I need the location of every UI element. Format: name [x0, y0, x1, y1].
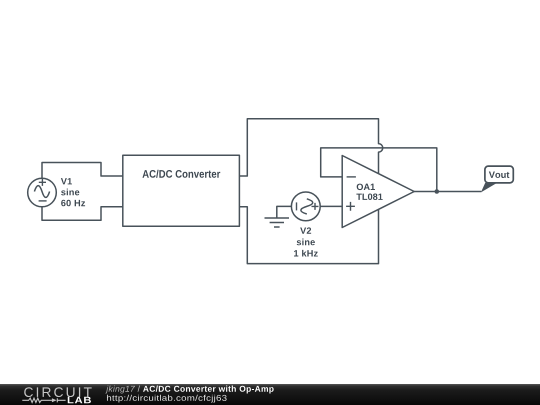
label V1 sine — [61, 189, 79, 196]
net flag Vout — [481, 166, 513, 192]
footer url — [107, 395, 227, 403]
footer bar — [0, 384, 540, 405]
label V2 sine — [297, 239, 315, 246]
footer title: author / name — [105, 386, 135, 394]
label V2 designator — [300, 227, 311, 233]
voltage source V2 — [291, 192, 320, 221]
ground — [265, 218, 290, 227]
wire V1 top terminal to converter top input — [42, 163, 123, 179]
label OA1 designator — [357, 184, 375, 191]
logo resistor-diode symbol — [22, 398, 65, 402]
label OA1 TL081 — [356, 193, 382, 200]
wire converter bottom output to op-amp V- power pin — [239, 207, 378, 264]
wire V2 positive terminal to op-amp non-inverting input — [320, 205, 342, 207]
voltage source V1 — [28, 178, 57, 207]
node junction output/feedback — [435, 189, 440, 194]
wire V1 bottom terminal to converter bottom input — [42, 207, 123, 221]
logo LAB text — [68, 397, 91, 404]
logo CIRCUIT text — [24, 387, 91, 397]
wire V2 negative terminal to ground — [277, 206, 292, 218]
op-amp OA1 — [342, 156, 414, 228]
label V1 60 Hz — [61, 200, 85, 207]
logo diode triangle — [52, 398, 57, 402]
label AC/DC Converter — [142, 170, 220, 178]
wire op-amp output to Vout — [414, 191, 481, 193]
label V2 1 kHz — [294, 250, 318, 257]
wire converter top output to op-amp V+ power pin — [239, 119, 382, 176]
label V1 designator — [61, 178, 72, 184]
wire feedback from output node to inverting input (hop over V+ wire) — [321, 148, 437, 192]
AC/DC Converter block — [123, 155, 240, 226]
